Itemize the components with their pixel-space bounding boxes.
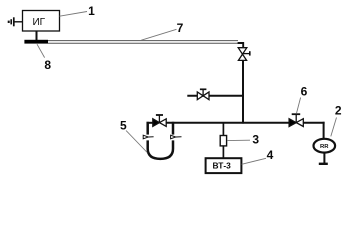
wire sensor to box — [222, 146, 224, 158]
ground symbol — [9, 17, 23, 26]
leader 5 — [126, 131, 147, 153]
svg-text:ИГ: ИГ — [32, 17, 45, 28]
svg-text:7: 7 — [177, 21, 184, 35]
svg-text:RR: RR — [320, 144, 329, 150]
probe right — [171, 135, 182, 139]
U-loop bottom — [148, 140, 173, 159]
svg-text:6: 6 — [301, 85, 308, 99]
wire corner down to gauge — [323, 122, 325, 140]
leader 6 — [296, 98, 300, 114]
leader 4 — [242, 158, 266, 164]
svg-text:ВТ-3: ВТ-3 — [213, 161, 232, 171]
valve V3 (5, half filled, handle top) — [153, 115, 166, 126]
gauge foot bar — [319, 163, 328, 165]
svg-text:8: 8 — [44, 58, 51, 72]
wire branch to valve V2 — [187, 95, 243, 97]
leader 7 — [141, 29, 176, 40]
valve V1 (top, outline, handle right) — [238, 48, 250, 61]
svg-text:5: 5 — [120, 119, 127, 133]
leader 1 — [60, 12, 88, 17]
wire vertical main drop — [242, 60, 244, 123]
probe left — [143, 135, 153, 139]
valve V2 (branch, outline, handle top) — [197, 89, 209, 99]
leader 8 — [37, 44, 45, 57]
svg-text:2: 2 — [335, 104, 342, 118]
svg-text:4: 4 — [267, 148, 274, 162]
main horizontal line — [147, 122, 325, 124]
pipe 7 (double line) — [48, 41, 238, 44]
valve V4 (6, half filled, handle top) — [289, 114, 303, 126]
pipe end elbow — [238, 43, 244, 48]
gauge stem — [323, 152, 325, 164]
wire from box to bar — [36, 31, 38, 41]
sensor 3 (small rect) — [220, 136, 226, 146]
svg-text:3: 3 — [252, 133, 259, 147]
U-loop left leg upper — [146, 122, 149, 135]
box 4 (ВТ-3) — [206, 158, 242, 173]
U-loop right leg upper — [172, 122, 175, 135]
svg-text:1: 1 — [88, 4, 95, 18]
bar 8 (thick black connector) — [24, 40, 48, 44]
leader 3 — [227, 139, 250, 141]
gauge 2 (RR ellipse) — [314, 139, 336, 153]
wire drop to sensor 3 — [222, 123, 224, 136]
generator box U1 (ИГ) — [23, 11, 60, 32]
leader 2 — [331, 118, 337, 137]
